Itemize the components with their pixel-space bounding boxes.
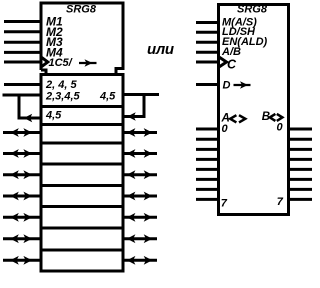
svg-text:0: 0: [277, 122, 284, 134]
pin D (serial data input): [196, 83, 219, 86]
port B bidirectional brackets &lt;&gt;: [270, 114, 283, 121]
register U1 (left SRG8) control section outline: [41, 3, 123, 75]
port A data pins (left, U2): [196, 129, 219, 199]
pin C (clock, dynamic input, U1): [4, 61, 41, 64]
wire: left branch from pin 2,3,4,5 down to serial row: [19, 95, 41, 118]
pin EN(ALD): [196, 41, 219, 44]
svg-text:7: 7: [221, 198, 228, 210]
svg-text:C: C: [227, 57, 237, 71]
pin 4,5 (right output): [123, 93, 159, 96]
dynamic input symbol at C (U2): [219, 57, 227, 67]
svg-text:4,5: 4,5: [45, 110, 62, 122]
port A bidirectional brackets &lt;&gt;: [230, 115, 245, 122]
bidirectional data pins right (U1): [123, 133, 157, 261]
arrowhead on left branch wire (pointing left): [24, 114, 32, 122]
register U1 data section outline: [41, 75, 123, 272]
pin 2,4,5 (left input): [4, 83, 41, 86]
dynamic input symbol at C (U1): [42, 57, 48, 66]
svg-text:0: 0: [222, 123, 229, 135]
pin C (clock, dynamic input, U2): [196, 61, 219, 64]
svg-text:SRG8: SRG8: [66, 4, 97, 16]
double arrowheads on left data pins (U1): [10, 128, 32, 265]
pin M2: [4, 30, 42, 33]
pin M1: [4, 20, 42, 23]
svg-text:SRG8: SRG8: [237, 4, 268, 16]
svg-text:1C5/: 1C5/: [49, 57, 74, 69]
shift direction arrow (1C5): [79, 59, 97, 67]
arrowhead on right branch wire (pointing left): [127, 112, 135, 120]
register U2 (right SRG8) outline: [219, 5, 289, 215]
bidirectional data pins left (U1): [3, 133, 41, 261]
svg-text:2, 4, 5: 2, 4, 5: [45, 79, 77, 91]
pin A/B: [196, 51, 219, 54]
pin M(A/S): [196, 21, 219, 24]
svg-text:2,3,4,5: 2,3,4,5: [45, 91, 81, 103]
pin M3: [4, 41, 42, 44]
section dividers (U1): [41, 107, 123, 251]
svg-text:D: D: [223, 80, 231, 92]
pin M4: [4, 51, 42, 54]
pin LD/SH: [196, 31, 219, 34]
shift direction arrow (D): [234, 81, 251, 89]
pin 2,3,4,5 (left input): [3, 94, 42, 97]
port B data pins (right, U2): [289, 129, 313, 199]
double arrowheads on right data pins (U1): [127, 128, 153, 265]
wire: right branch from output pin down into serial row: [123, 95, 144, 117]
svg-text:4,5: 4,5: [99, 91, 116, 103]
svg-text:7: 7: [277, 196, 284, 208]
svg-text:или: или: [147, 41, 174, 58]
